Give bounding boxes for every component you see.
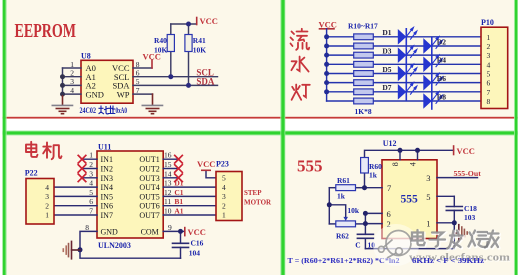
wire OUT7 to P23 [163, 214, 216, 216]
junction node pin1 [452, 220, 457, 225]
wire pin3 out [437, 177, 478, 179]
svg-text:0xA0: 0xA0 [116, 106, 128, 115]
svg-text:C18: C18 [464, 204, 477, 213]
svg-text:555: 555 [401, 194, 419, 206]
svg-text:9: 9 [168, 223, 172, 232]
wire VCC P23 pin5 [206, 171, 216, 178]
wire pin1 [437, 222, 454, 224]
pin numbers left [85, 151, 93, 232]
LED D4 [423, 55, 442, 72]
LED D7 [398, 83, 417, 100]
svg-text:IN3: IN3 [101, 174, 113, 183]
capacitor C18 [446, 207, 462, 211]
title 流水灯 (vertical) [291, 29, 310, 100]
no-connect X pin3 [78, 174, 86, 182]
wire P22 pin1 to IN7 [54, 214, 97, 216]
wire pin3 [63, 84, 82, 86]
LED D6 [423, 73, 442, 90]
svg-text:D5: D5 [382, 65, 391, 74]
wire bottom rail [365, 223, 454, 249]
junction node pin2 [60, 74, 65, 79]
svg-text:D1: D1 [382, 28, 391, 37]
svg-text:P22: P22 [25, 169, 38, 178]
value 24C02 地址0xA0 [80, 106, 128, 115]
svg-text:3: 3 [222, 192, 226, 201]
svg-text:P23: P23 [216, 160, 229, 169]
svg-text:C: C [355, 240, 360, 249]
resistor R17 [354, 98, 374, 104]
svg-text:5: 5 [487, 69, 491, 78]
power VCC (rail) [196, 18, 198, 25]
wire row3 [327, 54, 354, 56]
svg-text:OUT2: OUT2 [139, 165, 159, 174]
wire R41 bottom lead [188, 52, 190, 86]
wire row5 [327, 72, 354, 74]
junction node pin2 [363, 221, 368, 226]
junction node pin8 rail [398, 148, 403, 153]
svg-text:8: 8 [391, 162, 400, 166]
junction node R41-rail [186, 22, 191, 27]
svg-text:4: 4 [487, 60, 491, 69]
wire mid vertical to C10 [364, 213, 366, 234]
svg-text:IN2: IN2 [101, 165, 113, 174]
resistor R15 [354, 80, 374, 86]
svg-text:15: 15 [164, 160, 172, 169]
capacitor C16 [173, 243, 189, 247]
wire pin8 to VCC [133, 67, 152, 69]
svg-text:1k: 1k [369, 171, 378, 180]
svg-text:5: 5 [426, 192, 430, 202]
svg-text:D2: D2 [437, 37, 446, 46]
svg-text:IN6: IN6 [101, 202, 113, 211]
wire row8 [327, 100, 354, 102]
resistor R12 [354, 52, 374, 58]
svg-text:1: 1 [426, 218, 430, 228]
svg-text:3: 3 [89, 169, 93, 178]
svg-text:B1: B1 [174, 197, 183, 206]
wire SCL net [133, 76, 218, 78]
svg-text:11: 11 [164, 197, 171, 206]
svg-text:ULN2003: ULN2003 [98, 241, 131, 250]
svg-text:4: 4 [89, 179, 93, 188]
wire stub pin1 [82, 158, 97, 160]
junction node pin4 [60, 92, 65, 97]
wire R61 leads [329, 187, 336, 189]
svg-text:D4: D4 [437, 56, 446, 65]
no-connect X pin2 [78, 165, 86, 173]
wire stub pin14 [163, 177, 178, 179]
wire pin5 [437, 195, 454, 197]
wire C16 bottom lead [180, 247, 182, 258]
wire row4 [327, 63, 354, 65]
wire R40 bottom lead [170, 52, 172, 77]
junction node COM [178, 229, 183, 234]
svg-text:OUT6: OUT6 [139, 202, 159, 211]
svg-text:10K: 10K [154, 46, 168, 55]
junction node R40-SCL [168, 74, 173, 79]
svg-text:10: 10 [164, 207, 172, 216]
wire R60 bottom lead [364, 173, 366, 188]
wire pin6 [365, 212, 382, 214]
svg-text:4: 4 [222, 183, 226, 192]
wire OUT4 to P23 [163, 186, 216, 188]
svg-text:GND: GND [101, 228, 119, 237]
LED D5 [398, 64, 417, 81]
watermark logo circle [378, 231, 411, 259]
wire pin7 [365, 187, 383, 189]
junction node pin6 [363, 211, 368, 216]
svg-text:OUT4: OUT4 [139, 183, 159, 192]
svg-text:IN4: IN4 [101, 183, 113, 192]
LED D1 [398, 28, 417, 45]
junction node ground [78, 247, 83, 252]
svg-text:3: 3 [487, 51, 491, 60]
svg-text:2: 2 [89, 160, 93, 169]
junction node wiper [327, 202, 332, 207]
resistor R14 [354, 71, 374, 77]
wire stub pin16 [163, 158, 178, 160]
wire VCC rail [171, 23, 197, 25]
svg-text:103: 103 [464, 213, 476, 222]
svg-text:D7: D7 [382, 83, 391, 92]
svg-text:STEP: STEP [244, 189, 262, 197]
svg-text:OUT5: OUT5 [139, 192, 159, 201]
svg-text:R41: R41 [193, 36, 206, 45]
ground (sideways right) [454, 225, 467, 242]
wire left vertical [328, 188, 330, 224]
pin names IN1-IN7 [101, 155, 119, 236]
svg-text:OUT7: OUT7 [139, 211, 159, 220]
wire pin4 stub [417, 150, 419, 160]
svg-text:13: 13 [164, 179, 172, 188]
wire stub pin15 [163, 168, 178, 170]
svg-text:5: 5 [222, 174, 226, 183]
junction node pin3 [60, 83, 65, 88]
pin names OUT1-OUT7 [139, 155, 159, 236]
wire P22 pin2 to IN6 [54, 205, 97, 207]
svg-text:4: 4 [409, 162, 418, 166]
svg-text:SDA: SDA [196, 77, 215, 87]
svg-text:R61: R61 [337, 176, 350, 185]
wire P22 pin3 to IN5 [54, 195, 97, 197]
white band between quadrant rows [0, 119, 520, 132]
svg-text:7: 7 [89, 207, 93, 216]
wire SDA net [133, 84, 218, 86]
svg-text:10K: 10K [193, 46, 207, 55]
svg-text:3: 3 [45, 192, 49, 201]
power VCC (rail) [453, 146, 455, 155]
no-connect X pin1 [78, 155, 182, 181]
svg-text:6KHz < F < 39KHz: 6KHz < F < 39KHz [412, 256, 485, 265]
junction node pin4 rail [415, 148, 420, 153]
svg-text:5: 5 [89, 188, 93, 197]
svg-text:3: 3 [426, 173, 430, 183]
svg-text:VCC: VCC [188, 227, 206, 237]
svg-text:24C02: 24C02 [80, 106, 97, 115]
wire row1 [327, 36, 354, 38]
LED D2 [423, 37, 442, 54]
svg-text:4: 4 [45, 183, 49, 192]
svg-text:IN5: IN5 [101, 192, 113, 201]
wire pin4 [63, 93, 82, 95]
wire top rail [365, 150, 454, 157]
svg-text:104: 104 [189, 249, 201, 258]
svg-text:GND: GND [86, 89, 104, 99]
pin numbers right [164, 151, 172, 232]
LED D8 [423, 92, 442, 109]
ground (WP) [142, 94, 162, 114]
wire C18 top lead [453, 196, 455, 206]
wire C10 bottom lead [364, 238, 366, 248]
svg-text:OUT1: OUT1 [139, 155, 159, 164]
wire R41 top lead [188, 24, 190, 35]
wire stub pin3 [82, 177, 97, 179]
IC U11 body [97, 151, 163, 238]
no-connect X pin15 [175, 165, 183, 173]
wire stub pin2 [82, 168, 97, 170]
wire C18 bottom lead [453, 210, 455, 222]
junction nodes on VCC bus [324, 34, 329, 94]
svg-text:D3: D3 [382, 47, 391, 56]
svg-text:VCC: VCC [200, 16, 218, 26]
svg-text:10k: 10k [347, 206, 360, 215]
svg-text:R40: R40 [154, 36, 167, 45]
svg-text:IN7: IN7 [101, 211, 113, 220]
wire pin8 stub [399, 150, 401, 160]
potentiometer R62 [336, 221, 356, 227]
svg-text:2: 2 [487, 42, 491, 51]
junction node R60 pin7 [362, 185, 367, 190]
svg-text:OUT3: OUT3 [139, 174, 159, 183]
resistor R41 [185, 35, 192, 52]
resistor R61 [336, 185, 356, 191]
resistor R40 [167, 35, 174, 52]
svg-text:MOTOR: MOTOR [244, 199, 272, 207]
svg-text:P10: P10 [481, 18, 494, 27]
title 电机 [26, 142, 62, 159]
svg-text:1: 1 [45, 211, 49, 220]
ground (left of U8) [52, 96, 72, 114]
wire R40 top lead [170, 24, 172, 35]
ground (sideways left) [63, 241, 80, 258]
IC U8 body [81, 60, 133, 103]
svg-text:7: 7 [487, 88, 491, 97]
svg-text:C16: C16 [191, 239, 204, 248]
wire pin1 [63, 67, 82, 69]
resistor R11 [354, 43, 374, 49]
svg-text:8: 8 [85, 223, 89, 232]
green horizontal separator [0, 131, 520, 134]
svg-text:555: 555 [297, 157, 323, 176]
svg-text:D8: D8 [437, 92, 446, 101]
svg-text:D6: D6 [437, 74, 446, 83]
power VCC (COM) [184, 228, 186, 236]
wire row2 [327, 45, 354, 47]
net labels D1 C1 B1 A1 [174, 179, 183, 216]
resistor R60 [361, 158, 369, 174]
no-connect X pin14 [175, 174, 183, 182]
svg-text:VCC: VCC [457, 146, 475, 156]
border red line (bottom of top quadrants) [0, 117, 520, 119]
svg-text:1: 1 [487, 33, 491, 42]
wire R62 leads [329, 223, 336, 225]
svg-text:6: 6 [89, 197, 93, 206]
wire wiper [329, 205, 345, 218]
wire pin2 [365, 223, 382, 225]
svg-text:555-Out: 555-Out [454, 169, 482, 178]
wire OUT5 to P23 [163, 195, 216, 197]
svg-text:WP: WP [117, 89, 130, 99]
junction node R41-SDA [186, 83, 191, 88]
svg-text:U11: U11 [98, 143, 111, 152]
capacitor C10 [357, 234, 373, 238]
svg-text:U12: U12 [383, 139, 397, 148]
IC U12 body [382, 160, 437, 239]
wire GND pin8 down and bottom rail [80, 231, 181, 258]
green vertical separator left [3, 0, 6, 275]
resistor R10 [354, 34, 374, 40]
white right margin [518, 0, 520, 275]
svg-text:1: 1 [89, 151, 93, 160]
power VCC (pin8) [151, 60, 153, 68]
svg-text:14: 14 [164, 169, 172, 178]
green vertical separator right [515, 0, 518, 275]
svg-text:16: 16 [164, 151, 172, 160]
wire COM pin9 to VCC [163, 230, 183, 232]
wire row7 [327, 91, 354, 93]
svg-text:2: 2 [45, 201, 49, 210]
wire pin7 to ground [133, 93, 153, 95]
resistor R16 [354, 89, 374, 95]
wire OUT6 to P23 [163, 205, 216, 207]
no-connect X pin16 [175, 155, 183, 163]
svg-text:U8: U8 [81, 52, 91, 61]
watermark halo [373, 224, 419, 266]
svg-text:EEPROM: EEPROM [15, 20, 77, 42]
wire row6 [327, 82, 354, 84]
svg-text:VCC: VCC [319, 19, 337, 29]
watermark text 电子发烧友 [412, 230, 499, 249]
power VCC (P23 pin5) [202, 169, 210, 171]
svg-text:R62: R62 [336, 231, 349, 240]
LED D3 [398, 46, 417, 63]
wire VCC bus vertical [326, 29, 328, 101]
svg-text:IN1: IN1 [101, 155, 113, 164]
green vertical separator middle [281, 0, 284, 275]
white left margin [0, 0, 3, 275]
svg-text:1k: 1k [337, 192, 346, 201]
svg-text:1K*8: 1K*8 [355, 107, 372, 116]
svg-text:2: 2 [222, 201, 226, 210]
svg-text:C1: C1 [174, 188, 183, 197]
wire pin2 [63, 76, 82, 78]
wire bus to ground [62, 68, 64, 96]
svg-text:R10~R17: R10~R17 [348, 22, 378, 31]
svg-text:1: 1 [222, 211, 226, 220]
svg-text:6: 6 [487, 79, 491, 88]
resistor R13 [354, 61, 374, 67]
svg-text:6: 6 [387, 209, 391, 219]
svg-text:12: 12 [164, 188, 172, 197]
wire C16 top lead [180, 231, 182, 243]
svg-text:A1: A1 [174, 207, 183, 216]
svg-text:COM: COM [141, 228, 159, 237]
svg-text:8: 8 [487, 97, 491, 106]
svg-text:VCC: VCC [197, 159, 215, 169]
wire P22 pin4 to IN4 [54, 186, 97, 188]
svg-text:7: 7 [387, 183, 391, 193]
